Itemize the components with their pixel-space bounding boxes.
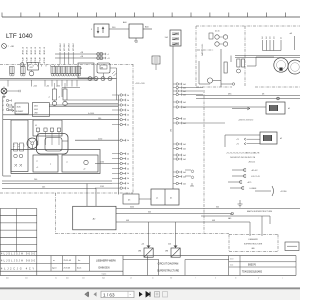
svg-text:-5: -5: [66, 162, 68, 164]
svg-text:+1: +1: [48, 97, 50, 99]
svg-text:2K45.12: 2K45.12: [22, 46, 24, 54]
svg-text:5d1: 5d1: [273, 36, 275, 39]
svg-text:4D4: 4D4: [168, 244, 171, 246]
svg-text:640: 640: [216, 207, 219, 209]
svg-text:EARTH SUPERSTRUCTURE: EARTH SUPERSTRUCTURE: [247, 210, 273, 213]
svg-text:4d: 4d: [127, 120, 129, 122]
svg-text:+E1+E2: +E1+E2: [251, 170, 258, 172]
svg-text:4d: 4d: [127, 168, 129, 170]
svg-text:LIEBHERR-WERK: LIEBHERR-WERK: [96, 260, 116, 263]
svg-text:+d8: +d8: [289, 33, 292, 35]
svg-text:4d: 4d: [127, 188, 129, 190]
svg-text:4d: 4d: [127, 110, 129, 112]
svg-text:2K45.12: 2K45.12: [40, 46, 42, 54]
svg-text:4d: 4d: [127, 173, 129, 175]
svg-text:4d: 4d: [127, 140, 129, 142]
svg-text:5165: 5165: [100, 186, 104, 188]
svg-text:4F5.2K4: 4F5.2K4: [73, 43, 75, 51]
svg-text:-D3.C2+15: -D3.C2+15: [251, 176, 260, 178]
svg-text:2K45.12: 2K45.12: [44, 46, 46, 54]
svg-text:LIEBHERR: LIEBHERR: [248, 239, 258, 241]
svg-text:+5: +5: [36, 167, 38, 169]
svg-text:240: 240: [34, 179, 37, 181]
svg-text:4d: 4d: [127, 115, 129, 117]
svg-text:sh: sh: [235, 278, 237, 280]
svg-text:5d1: 5d1: [266, 36, 268, 39]
svg-text:TD4023823LB14E0: TD4023823LB14E0: [242, 271, 263, 273]
svg-text:res: res: [55, 278, 57, 280]
svg-text:+E79: +E79: [247, 182, 251, 184]
svg-text:4F5.2K4: 4F5.2K4: [64, 43, 66, 51]
svg-text:-5+5M4E: -5+5M4E: [249, 188, 257, 190]
svg-text:SUPERSTRUCTURE: SUPERSTRUCTURE: [157, 271, 180, 273]
svg-text:5160: 5160: [100, 162, 104, 164]
svg-text:4F5.2K4: 4F5.2K4: [60, 43, 62, 51]
svg-text:4d5: 4d5: [183, 155, 186, 157]
svg-text:4F5.2K4: 4F5.2K4: [69, 43, 71, 51]
svg-text:2K45.12: 2K45.12: [27, 46, 29, 54]
svg-text:-5: -5: [36, 161, 38, 163]
svg-text:4 - 5: 4 - 5: [14, 144, 16, 147]
svg-text:25.11.03: 25.11.03: [64, 260, 73, 262]
svg-text:B95076: B95076: [248, 264, 257, 266]
svg-text:+520 +520: +520 +520: [135, 83, 145, 85]
svg-text:580: 580: [98, 118, 101, 120]
svg-text:4d: 4d: [127, 178, 129, 180]
svg-text:4545: 4545: [17, 107, 21, 109]
svg-text:4LJ5LJ5JH 9600: 4LJ5LJ5JH 9600: [1, 252, 36, 255]
svg-text:2HL2HR.2V1.2H1.2HL2H2.2.2H: 2HL2HR.2V1.2H1.2HL2H2.2.2H: [230, 157, 256, 159]
svg-text:488: 488: [101, 67, 104, 69]
svg-text:d1: d1: [288, 108, 290, 110]
svg-text:+71: +71: [236, 139, 239, 141]
svg-text:245: 245: [42, 187, 45, 189]
svg-text:4d: 4d: [127, 163, 129, 165]
svg-text:4d: 4d: [127, 183, 129, 185]
svg-text:640: 640: [148, 212, 151, 214]
svg-text:4F5.2K: 4F5.2K: [40, 56, 42, 63]
svg-text:4d5: 4d5: [183, 84, 186, 86]
svg-text:4HB: 4HB: [138, 251, 141, 253]
svg-text:5d1: 5d1: [262, 36, 264, 39]
svg-text:4F5.2K: 4F5.2K: [22, 56, 24, 63]
svg-text:back: back: [77, 268, 81, 270]
svg-text:4845: 4845: [34, 106, 38, 108]
svg-text:1 / 63: 1 / 63: [103, 292, 115, 297]
svg-text:4d: 4d: [127, 95, 129, 97]
svg-text:EHINGEN: EHINGEN: [99, 267, 110, 270]
svg-text:4F5.2K: 4F5.2K: [44, 56, 46, 63]
svg-text:4d: 4d: [127, 159, 129, 161]
svg-text:4d5: 4d5: [183, 183, 186, 185]
svg-text:+1: +1: [107, 54, 109, 56]
svg-text:4HB: 4HB: [165, 251, 168, 253]
svg-text:4d: 4d: [127, 154, 129, 156]
svg-text:+5B5: +5B5: [10, 46, 14, 48]
svg-text:4A5: 4A5: [251, 247, 254, 250]
svg-text:4d5: 4d5: [183, 176, 186, 178]
svg-text:5d: 5d: [281, 37, 283, 39]
svg-text:45: 45: [35, 125, 37, 127]
svg-text:470: 470: [30, 67, 33, 69]
svg-text:+500: +500: [56, 85, 60, 87]
svg-text:4A5: 4A5: [228, 217, 231, 220]
svg-text:4d: 4d: [127, 105, 129, 107]
svg-text:d2: d2: [280, 138, 282, 140]
svg-text:4645: 4645: [34, 109, 38, 111]
svg-text:448: 448: [126, 220, 129, 222]
svg-text:+545: +545: [33, 85, 37, 87]
svg-text:6400: 6400: [130, 207, 134, 209]
svg-text:2K45.12: 2K45.12: [35, 46, 37, 54]
svg-text:LTF 1040: LTF 1040: [6, 33, 33, 40]
svg-text:470: 470: [230, 214, 233, 216]
svg-text:+R15L15: +R15L15: [248, 162, 255, 164]
svg-text:4d: 4d: [127, 100, 129, 102]
svg-text:CIRCUIT DIAGRAM: CIRCUIT DIAGRAM: [158, 262, 179, 265]
svg-text:2K45.12: 2K45.12: [31, 46, 33, 54]
svg-text:MOMENT: MOMENT: [16, 111, 23, 113]
svg-text:no: no: [152, 278, 154, 280]
svg-text:+D4: +D4: [141, 244, 144, 246]
svg-text:taper: taper: [52, 267, 57, 270]
svg-text:4d: 4d: [127, 125, 129, 127]
svg-text:4d5: 4d5: [183, 159, 186, 161]
svg-text:+5V4757.4747.472: +5V4757.4747.472: [238, 120, 253, 122]
svg-text:4d5: 4d5: [183, 148, 186, 150]
svg-text:48: 48: [80, 68, 82, 70]
svg-text:4d5: 4d5: [183, 102, 186, 104]
svg-text:+60: +60: [46, 85, 49, 87]
svg-text:0-4.400: 0-4.400: [88, 113, 94, 115]
svg-text:SUPERSTRUCTURE: SUPERSTRUCTURE: [244, 244, 263, 246]
svg-text:d1 d1: d1 d1: [215, 31, 220, 33]
svg-text:4d5: 4d5: [183, 144, 186, 146]
svg-text:4d5: 4d5: [183, 172, 186, 174]
svg-text:448: 448: [212, 220, 215, 222]
svg-text:5d1: 5d1: [270, 36, 272, 39]
svg-text:+T1+T2+T3+T4+T5+T6.5B6.E5+D6B6: +T1+T2+T3+T4+T5+T6.5B6.E5+D6B6+TB: [226, 153, 260, 155]
svg-text:+71: +71: [236, 144, 239, 146]
svg-text:160: 160: [171, 129, 173, 132]
svg-text:4LJ5LJ5JH 9800: 4LJ5LJ5JH 9800: [1, 260, 36, 263]
svg-text:25.8.03: 25.8.03: [64, 268, 72, 270]
svg-text:+3C2E0: +3C2E0: [280, 191, 287, 193]
svg-text:4d5: 4d5: [183, 118, 186, 120]
svg-text:+11: +11: [107, 58, 110, 60]
